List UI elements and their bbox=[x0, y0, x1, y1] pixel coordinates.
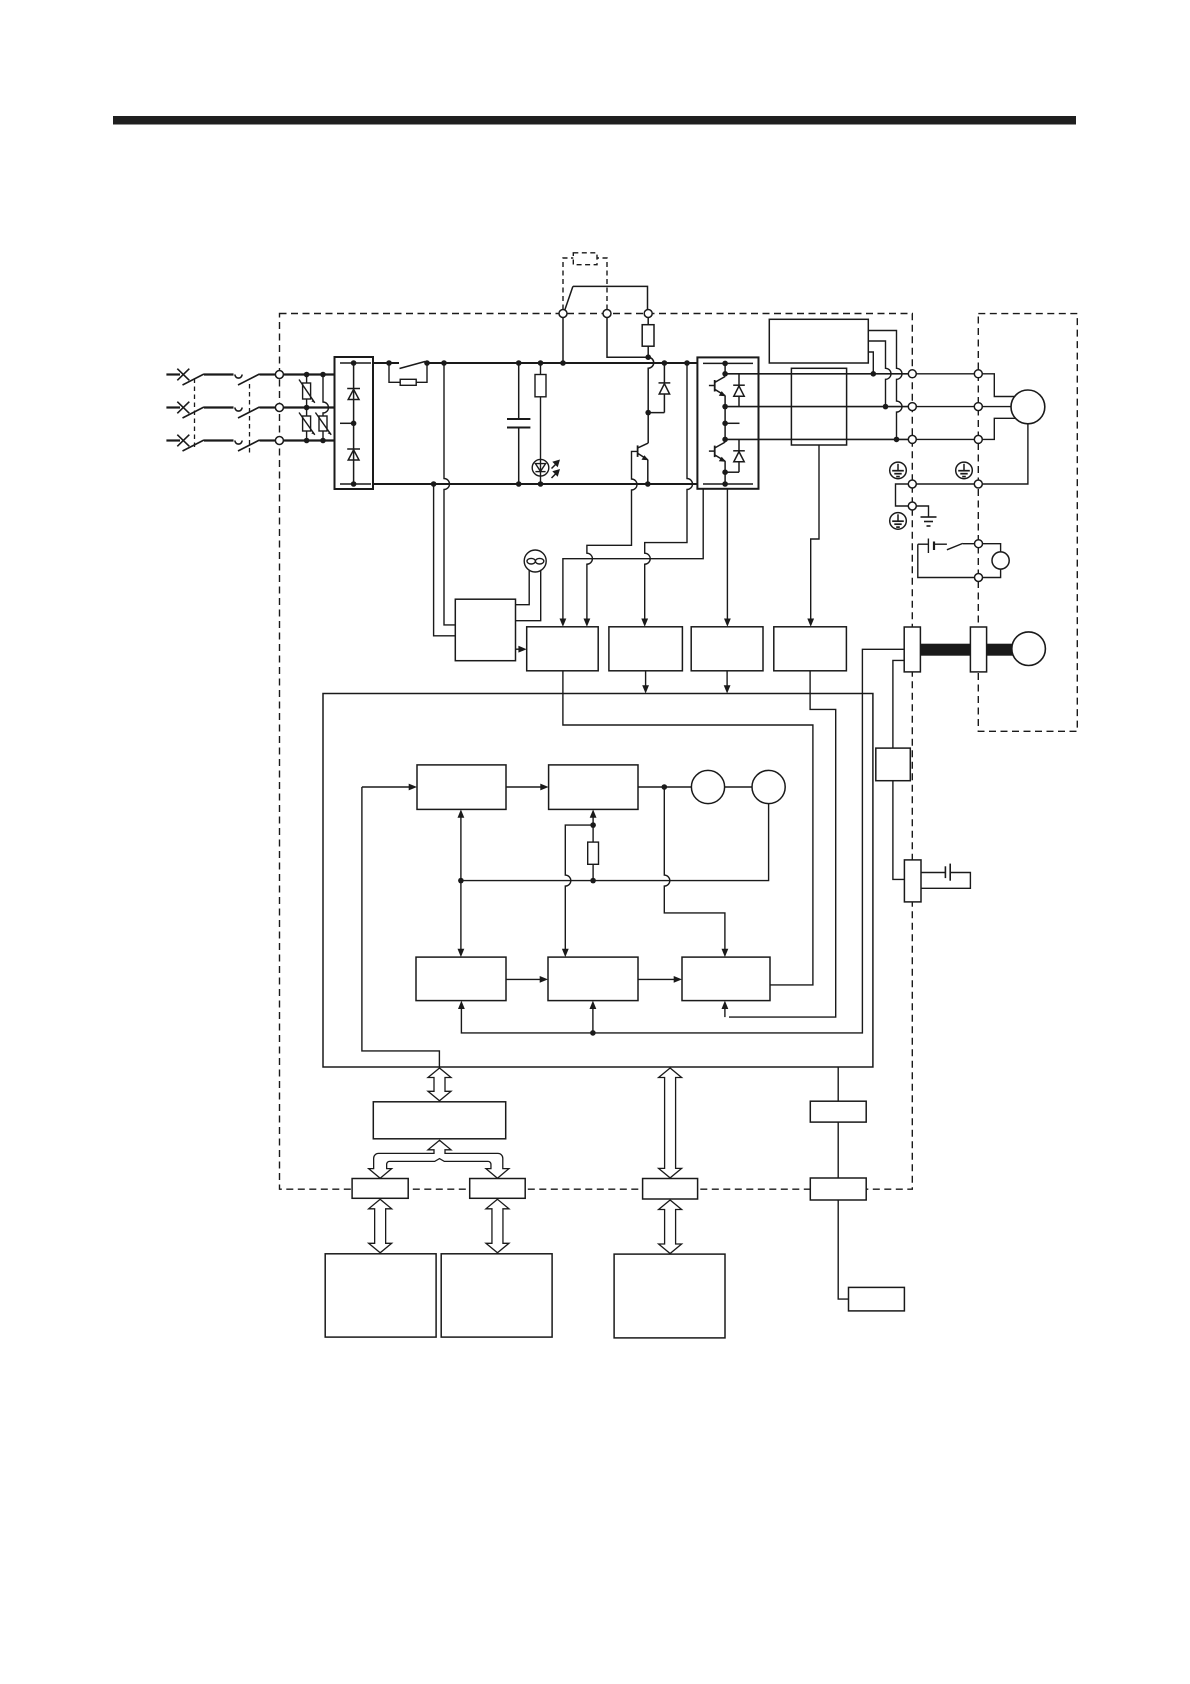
encoder connector amplifier side bbox=[904, 627, 920, 672]
CT tap dots bbox=[871, 371, 900, 442]
IGBT Q1 bbox=[709, 377, 726, 397]
built-in regenerative resistor switch blade bbox=[565, 286, 573, 310]
arrow into base drive circuit bbox=[560, 619, 567, 627]
MC mechanical link (dashed) bbox=[249, 384, 251, 455]
PE symbol earth bbox=[890, 513, 907, 530]
terminal V amplifier side bbox=[908, 403, 916, 411]
encoder feedback wire to controller bbox=[461, 649, 904, 1033]
encoder cable shaft left bbox=[920, 644, 970, 656]
earth wire from PE2 bbox=[916, 506, 928, 517]
speed control block box bbox=[548, 957, 638, 1001]
arrow power supply to base drive circuit bbox=[516, 648, 523, 650]
rectifier diode D1 bbox=[347, 389, 360, 400]
terminal C bbox=[559, 310, 567, 318]
analog monitor circle 1 bbox=[691, 770, 724, 803]
servo motor enclosure (dashed) bbox=[978, 314, 1077, 732]
position control block box bbox=[416, 957, 506, 1001]
brake power battery bbox=[918, 539, 947, 554]
wire terminal C to P bus bbox=[562, 318, 564, 364]
NFB pole 3 bbox=[177, 435, 204, 451]
wire connector to monitor device bbox=[838, 1200, 848, 1299]
hollow arrow CN1A to controller device bbox=[369, 1199, 392, 1253]
terminal L3 bbox=[275, 437, 283, 445]
hollow arrow CN1B to controller device bbox=[486, 1199, 509, 1253]
charge lamp LED bbox=[532, 459, 549, 484]
regenerative brake transistor bbox=[638, 413, 649, 484]
terminal U motor side bbox=[974, 370, 982, 378]
arrow into command block bbox=[409, 784, 417, 791]
inrush suppression resistor bypass bbox=[389, 363, 427, 385]
regen transistor base wire (jumps N bus) bbox=[587, 451, 638, 622]
dynamic brake interface output wire bbox=[729, 671, 836, 1017]
regen wire jumps P bus bbox=[648, 357, 654, 412]
wire switch to terminal B1 bbox=[963, 543, 975, 545]
inverter internal P bar bbox=[703, 362, 753, 364]
control power supply box bbox=[455, 599, 515, 661]
NFB mechanical link (dashed) bbox=[194, 379, 196, 450]
CT tap wire to phase V (jumps U) bbox=[868, 341, 891, 407]
wire to monitor connector bbox=[837, 1122, 839, 1178]
servo motor bbox=[1011, 390, 1045, 424]
cooling fan bbox=[516, 550, 547, 621]
encoder receiver box bbox=[876, 748, 911, 781]
external device box 3 bbox=[614, 1254, 725, 1338]
phase S input wire bbox=[166, 406, 334, 408]
dynamic brake interface box bbox=[774, 627, 847, 671]
wire comparison to monitor circles bbox=[638, 786, 691, 788]
MC contact 1 bbox=[235, 374, 260, 385]
wire B1 to brake coil bbox=[983, 544, 1001, 552]
external regenerative option box (dashed) bbox=[573, 253, 597, 265]
arrow into PWM block bottom bbox=[724, 1006, 726, 1017]
PE symbol amplifier bbox=[890, 462, 907, 479]
comparison block box bbox=[549, 765, 638, 810]
arrow into PWM block top bbox=[722, 949, 729, 957]
current transformer box bbox=[769, 319, 868, 363]
terminal V motor side bbox=[974, 403, 982, 411]
N bus junction dots bbox=[431, 481, 651, 487]
CT tap wire to phase U bbox=[868, 352, 873, 374]
arrow into position control bbox=[458, 1001, 465, 1009]
hollow arrow controller to interface bbox=[428, 1068, 451, 1101]
wire P bus to control power supply (jumps N bus) bbox=[444, 363, 455, 625]
analog monitor interface box bbox=[810, 1101, 866, 1122]
freewheel diode FD2 bbox=[725, 439, 745, 472]
connector CN1A bbox=[352, 1179, 408, 1199]
analog monitor circle 2 bbox=[752, 770, 785, 803]
terminal W amplifier side bbox=[908, 435, 916, 443]
regenerative diode bbox=[648, 363, 670, 413]
output phase U wire bbox=[725, 373, 908, 375]
P bus junction dots bbox=[386, 354, 690, 415]
terminal L1 bbox=[275, 371, 283, 379]
dashed lead terminal C to option bbox=[563, 258, 573, 310]
terminal B1 bbox=[975, 540, 983, 548]
arrow up into comparison block bbox=[592, 815, 594, 825]
wire brake coil to terminal B2 bbox=[983, 569, 1001, 577]
protective earth terminal PE2 bbox=[908, 502, 916, 510]
arrow into current detection circuit bbox=[724, 619, 731, 627]
inverter internal N bar bbox=[703, 483, 753, 485]
earth ground symbol bbox=[921, 517, 937, 526]
voltage detection box bbox=[609, 627, 683, 671]
built-in regenerative resistor bbox=[642, 318, 654, 358]
rectifier internal bus bbox=[340, 363, 371, 484]
encoder bbox=[1012, 632, 1046, 666]
inverter power module bbox=[697, 357, 758, 488]
monitor circle 2 feedback wire bbox=[461, 804, 769, 881]
wire N bus to control power supply bbox=[434, 484, 456, 636]
encoder cable shaft right bbox=[987, 644, 1015, 656]
PE wire to motor bbox=[916, 483, 974, 485]
hollow split arrow interface to CN1A CN1B bbox=[369, 1140, 509, 1178]
external device box 2 bbox=[441, 1254, 552, 1337]
voltage detection output arrow bbox=[645, 671, 647, 689]
hollow arrow CN3 to external device bbox=[659, 1200, 682, 1254]
terminal D bbox=[603, 310, 611, 318]
P bus (top DC bus) bbox=[373, 362, 697, 364]
PWM block box bbox=[682, 957, 770, 1001]
CT tap wire to phase W (jumps U and V) bbox=[868, 331, 902, 440]
command feedback wire from interface bbox=[362, 787, 440, 1067]
IGBT Q2 bbox=[709, 442, 726, 462]
base drive output into controller bbox=[563, 671, 813, 985]
motor lead V bbox=[982, 406, 1012, 408]
varistor V3 with wire jump over phase S bbox=[315, 375, 331, 441]
wire terminal D to regen node bbox=[607, 318, 648, 358]
freewheel diode FD1 bbox=[733, 374, 745, 407]
wire V to motor terminal bbox=[916, 406, 974, 408]
monitor node dot bbox=[662, 784, 668, 790]
NFB pole 1 bbox=[177, 369, 204, 385]
wire W to motor terminal bbox=[916, 438, 974, 440]
gate drive wire upper IGBT bbox=[563, 489, 703, 622]
MC contact 3 bbox=[235, 440, 260, 451]
arrow command to comparison block bbox=[506, 786, 544, 788]
controller main box bbox=[323, 694, 873, 1068]
monitor connector box bbox=[810, 1178, 866, 1200]
gate drive wire lower IGBT bbox=[726, 489, 728, 622]
smoothing capacitor bbox=[507, 363, 530, 484]
terminal W motor side bbox=[974, 435, 982, 443]
N bus (bottom DC bus) bbox=[373, 483, 753, 485]
backup battery bbox=[921, 864, 970, 889]
arrow speed control to PWM bbox=[638, 978, 678, 980]
output phase V wire bbox=[725, 406, 908, 408]
terminal B2 bbox=[975, 574, 983, 582]
current detection output arrow bbox=[726, 671, 728, 689]
hollow arrow controller to CN3 bbox=[659, 1068, 682, 1178]
rectifier bridge module bbox=[335, 357, 374, 489]
terminal P bbox=[644, 310, 652, 318]
terminal PE motor side bbox=[974, 480, 982, 488]
varistor V1 bbox=[299, 375, 315, 408]
feedback wire monitor node to PWM (jumps cross wire) bbox=[664, 787, 725, 953]
arrow position to speed control bbox=[506, 978, 544, 980]
branch wire to speed control block (jumps feedback wire) bbox=[565, 825, 593, 952]
inverter center leg bbox=[724, 363, 726, 484]
arrow into voltage detection bbox=[641, 619, 648, 627]
rectifier node dots bbox=[351, 360, 357, 487]
inverter node dots bbox=[722, 361, 728, 487]
monitor output wire bbox=[837, 1067, 839, 1101]
arrow into dynamic brake interface bbox=[807, 619, 814, 627]
dynamic brake drive wire bbox=[811, 445, 819, 622]
connector CN1B bbox=[470, 1179, 526, 1199]
current detection box bbox=[691, 627, 763, 671]
motor ground lead bbox=[982, 420, 1028, 484]
inrush relay contact bbox=[400, 362, 426, 369]
P bus sense wire to voltage detection (jumps N bus) bbox=[645, 363, 693, 622]
phase R input wire bbox=[166, 373, 334, 375]
output phase W wire bbox=[725, 438, 908, 440]
wire U to motor terminal bbox=[916, 373, 974, 375]
electromagnetic brake coil bbox=[992, 552, 1009, 569]
wire switch to terminal D bbox=[573, 286, 648, 309]
junction dots input section bbox=[304, 372, 326, 444]
brake return wire bbox=[918, 544, 975, 577]
battery connector CN bbox=[904, 860, 921, 902]
charge lamp resistor bbox=[535, 363, 546, 460]
arrow down into speed control block bbox=[562, 949, 569, 957]
PE link bracket bbox=[896, 484, 909, 506]
NFB pole 2 bbox=[177, 402, 204, 418]
arrow up into command block bbox=[460, 815, 462, 881]
dashed lead terminal D to option bbox=[597, 258, 607, 310]
terminal U amplifier side bbox=[908, 370, 916, 378]
command block box bbox=[417, 765, 506, 810]
gain resistor chain to comparison block bbox=[592, 825, 594, 842]
phase T input wire bbox=[166, 439, 334, 441]
encoder connector motor side bbox=[970, 627, 986, 672]
wire receiver to battery connector bbox=[893, 781, 905, 880]
charge lamp emission arrows bbox=[552, 460, 561, 479]
servo amplifier enclosure (dashed) bbox=[280, 314, 913, 1190]
inverter mid tap stub bbox=[725, 422, 739, 424]
rectifier diode D2 bbox=[347, 449, 360, 460]
arrow into overcurrent protection bbox=[584, 619, 591, 627]
interface box bbox=[373, 1102, 505, 1139]
MC contact 2 bbox=[235, 407, 260, 418]
encoder wire to receiver bbox=[893, 660, 904, 748]
wire between monitor circles bbox=[725, 786, 752, 788]
connector CN3 bbox=[643, 1179, 698, 1200]
dynamic brake circuit box bbox=[791, 368, 846, 445]
monitor device box bbox=[849, 1287, 905, 1311]
varistor V2 bbox=[299, 408, 315, 441]
PE symbol motor bbox=[956, 462, 973, 479]
external device box 1 bbox=[325, 1254, 436, 1337]
motor lead U bbox=[982, 374, 1016, 397]
title bar rule bbox=[113, 116, 1076, 125]
base drive circuit box bbox=[527, 627, 599, 671]
brake release switch bbox=[947, 543, 963, 549]
gain resistor bbox=[588, 842, 599, 864]
protective earth terminal PE1 bbox=[908, 480, 916, 488]
arrow down into position control block bbox=[460, 881, 462, 952]
terminal L2 bbox=[275, 404, 283, 412]
arrow into speed control from encoder bus bbox=[592, 1006, 594, 1033]
controller inner dots bbox=[458, 822, 596, 883]
motor lead W bbox=[982, 418, 1016, 439]
encoder bus dot bbox=[590, 1030, 596, 1036]
